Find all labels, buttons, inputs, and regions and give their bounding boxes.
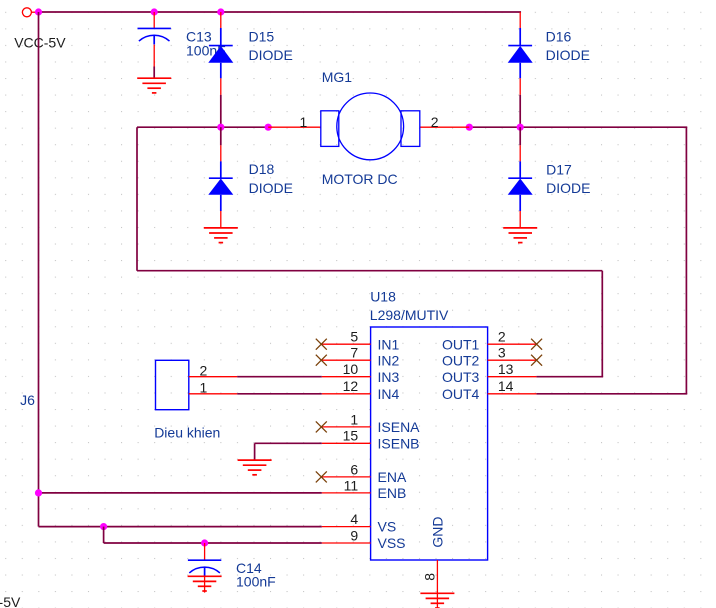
svg-text:8: 8 (422, 573, 438, 581)
svg-text:100nF: 100nF (236, 573, 276, 589)
junction at ENB branch (35, 489, 42, 496)
IC U18 pin 11 ENB (322, 477, 406, 501)
svg-text:1: 1 (200, 379, 208, 395)
junction at D15 top (217, 8, 224, 15)
wire motor row right inner (469, 126, 520, 128)
svg-text:IN3: IN3 (378, 369, 400, 385)
svg-text:ISENA: ISENA (378, 419, 421, 435)
wire inner loop horizontal (137, 270, 602, 272)
junction at D16-D17 node (517, 124, 524, 131)
motor MG1 pin 1 (268, 126, 321, 128)
svg-text:MOTOR DC: MOTOR DC (322, 171, 398, 187)
ground below D18 (204, 228, 238, 243)
wire motor row right outer (520, 126, 687, 128)
wire J6 pin 1 to IN4 (237, 393, 322, 395)
no-ERC marker on pin 1 (316, 421, 327, 432)
svg-text:J6: J6 (20, 392, 35, 408)
ground below C14 (188, 576, 222, 591)
svg-text:VSS: VSS (378, 535, 406, 551)
svg-text:DIODE: DIODE (546, 47, 590, 63)
junction at motor pin 2 (466, 124, 473, 131)
ground below C13 (137, 78, 171, 93)
svg-text:2: 2 (498, 329, 506, 345)
IC U18 pin 8 GND (422, 517, 446, 608)
wire outer loop vertical right (685, 127, 687, 394)
svg-text:DIODE: DIODE (249, 47, 293, 63)
motor MG1 pin 2 (420, 126, 470, 128)
wire motor row left outer (137, 126, 221, 128)
svg-text:ISENB: ISENB (378, 435, 420, 451)
connector J6 body (156, 360, 189, 409)
svg-text:ENA: ENA (378, 469, 407, 485)
junction at C14 tap (201, 539, 208, 546)
power port VCC-5V (22, 8, 38, 17)
svg-text:IN1: IN1 (378, 336, 400, 352)
diode D16 (508, 12, 533, 95)
diode D18 (208, 127, 233, 228)
junction at motor pin 1 (265, 124, 272, 131)
svg-text:3: 3 (498, 345, 506, 361)
svg-text:13: 13 (498, 361, 514, 377)
svg-text:2: 2 (200, 362, 208, 378)
capacitor C13 (138, 12, 171, 78)
wire top rail VCC segment 2 (154, 11, 221, 13)
svg-text:OUT3: OUT3 (442, 369, 480, 385)
IC U18 pin 13 OUT3 (442, 361, 536, 385)
diode D15 (208, 12, 233, 95)
svg-text:4: 4 (350, 511, 358, 527)
junction at VCC power port (35, 8, 42, 15)
svg-text:D15: D15 (249, 29, 275, 45)
IC U18 pin 3 OUT2 (442, 345, 536, 369)
svg-text:IN2: IN2 (378, 352, 400, 368)
motor MG1 body (321, 93, 420, 160)
ground below IC U18 GND pin (420, 593, 454, 608)
svg-text:DIODE: DIODE (249, 180, 293, 196)
IC U18 pin 6 ENA (322, 461, 407, 485)
ground on ISENB net (238, 460, 272, 475)
svg-text:7: 7 (350, 345, 358, 361)
svg-text:U18: U18 (370, 289, 396, 305)
svg-text:VCC-5V: VCC-5V (0, 594, 21, 608)
svg-text:2: 2 (431, 114, 439, 130)
svg-text:OUT1: OUT1 (442, 336, 480, 352)
svg-text:D16: D16 (546, 29, 572, 45)
wire ISENB to ground horizontal (255, 442, 322, 444)
svg-text:15: 15 (343, 428, 359, 444)
svg-text:6: 6 (350, 461, 358, 477)
svg-text:D17: D17 (546, 162, 572, 178)
svg-text:OUT4: OUT4 (442, 386, 480, 402)
IC U18 pin 15 ISENB (322, 428, 420, 452)
svg-text:VS: VS (378, 519, 397, 535)
no-ERC marker on pin 6 (316, 471, 327, 482)
connector J6 pin 1 (189, 379, 237, 395)
svg-text:1: 1 (350, 411, 358, 427)
IC U18 pin 7 IN2 (322, 345, 400, 369)
no-ERC marker on pin 3 (531, 355, 542, 366)
wire left vertical VCC rail upper (38, 12, 40, 493)
svg-text:9: 9 (350, 527, 358, 543)
IC U18 pin 5 IN1 (322, 329, 400, 353)
no-ERC marker on pin 2 (531, 339, 542, 350)
wire top rail VCC segment 3 (221, 11, 521, 13)
svg-text:14: 14 (498, 378, 514, 394)
capacitor C14 (188, 543, 221, 593)
wire motor row left inner (221, 126, 268, 128)
wire ISENB to ground vertical (254, 443, 256, 460)
svg-text:D18: D18 (249, 161, 275, 177)
IC U18 pin 14 OUT4 (442, 378, 536, 402)
IC U18 pin 9 VSS (322, 527, 406, 551)
IC U18 pin 12 IN4 (322, 378, 400, 402)
svg-text:IN4: IN4 (378, 386, 400, 402)
junction at D15-D18 node (217, 124, 224, 131)
diode D17 (508, 127, 533, 228)
IC U18 pin 2 OUT1 (442, 329, 536, 353)
wire VSS branch vertical (103, 527, 105, 543)
wire D16 anode to motor node (519, 95, 521, 127)
no-ERC marker on pin 7 (316, 355, 327, 366)
connector J6 pin 2 (189, 362, 237, 378)
svg-text:MG1: MG1 (322, 69, 353, 85)
wire VCC rail to VS (39, 526, 322, 528)
wire inner loop vertical left (136, 127, 138, 271)
svg-text:OUT2: OUT2 (442, 352, 480, 368)
wire VSS horizontal (104, 542, 322, 544)
op-amp driver IC U18 body (371, 327, 488, 560)
svg-text:VCC-5V: VCC-5V (14, 34, 66, 50)
junction at C13 top (151, 8, 158, 15)
svg-text:1: 1 (300, 114, 308, 130)
svg-text:Dieu khien: Dieu khien (154, 424, 220, 440)
wire left vertical VCC rail lower (38, 493, 40, 527)
svg-text:GND: GND (430, 517, 446, 548)
svg-text:5: 5 (350, 329, 358, 345)
IC U18 pin 10 IN3 (322, 361, 400, 385)
svg-text:L298/MUTIV: L298/MUTIV (370, 307, 449, 323)
svg-text:ENB: ENB (378, 485, 407, 501)
no-ERC marker on pin 5 (316, 339, 327, 350)
IC U18 pin 4 VS (322, 511, 396, 535)
wire OUT4 horizontal (536, 393, 687, 395)
wire top rail VCC segment 1 (39, 11, 155, 13)
wire VCC rail to ENB (39, 492, 322, 494)
IC U18 pin 1 ISENA (322, 411, 420, 435)
svg-text:DIODE: DIODE (546, 180, 590, 196)
junction at VSS branch (100, 523, 107, 530)
svg-text:12: 12 (343, 378, 359, 394)
svg-text:10: 10 (343, 361, 359, 377)
ground below D17 (503, 228, 537, 243)
wire J6 pin 2 to IN3 (237, 376, 322, 378)
wire OUT3 horizontal (536, 376, 603, 378)
svg-text:11: 11 (344, 477, 359, 493)
wire inner loop vertical right to OUT3 (601, 271, 603, 377)
wire D15 anode to motor node (220, 95, 222, 127)
